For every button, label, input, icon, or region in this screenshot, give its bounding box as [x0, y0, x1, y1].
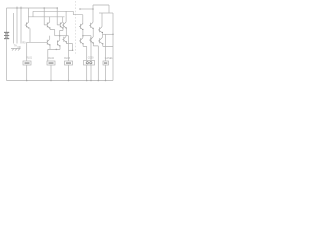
junction dots: [16, 7, 18, 9]
transistor Q3: [89, 22, 93, 29]
wire Q5b emitter route: [83, 44, 87, 61]
box B3 value: [66, 62, 71, 63]
wire bottom bus: [7, 80, 114, 82]
wire leg3 top link: [99, 12, 113, 14]
box B4 value rings: [86, 62, 88, 64]
wire Q1 collector up: [49, 17, 51, 22]
box B1 value: [25, 62, 30, 63]
battery BT1: [4, 32, 9, 38]
wire battery negative: [6, 39, 8, 81]
wire B3 jog: [69, 49, 73, 51]
transistor Q6: [89, 37, 93, 44]
box B2 value: [49, 62, 54, 63]
wire right top bus: [80, 8, 93, 10]
wire phase1: [55, 35, 69, 37]
wire right riser: [112, 13, 114, 81]
wire Q2 emitter into Q5: [65, 28, 67, 36]
wire Q3b collector feed: [101, 13, 103, 27]
wire Q1 emitter route: [50, 28, 55, 35]
svg-text:CASE1: CASE1: [105, 57, 114, 60]
svg-text:RL03: RL03: [64, 57, 70, 60]
resistor box B4: [84, 61, 95, 66]
wire tap V13.5: [13, 13, 15, 44]
wire Q2b feed: [73, 11, 83, 24]
wire Q2b emitter into Q5b: [82, 30, 84, 38]
wire collector bus y16.8: [28, 16, 65, 18]
transistor Q2: [62, 22, 66, 29]
wire Q3 collector feed: [92, 5, 94, 22]
wire B3 bottom: [68, 65, 70, 81]
resistor box B2: [47, 61, 55, 65]
transistor Q5b: [79, 38, 83, 45]
wire routing y11: [33, 11, 73, 16]
wire Q1b collector up: [62, 17, 64, 22]
transistor QA: [25, 22, 29, 29]
wire Q4 emitter: [49, 45, 51, 49]
wire phase2: [83, 35, 91, 37]
ground bar: [11, 49, 21, 51]
wire B3 drop: [68, 36, 70, 61]
wire lower join leg1: [48, 49, 60, 61]
dashed separator: [75, 1, 77, 54]
wire Q1b base drop: [57, 8, 60, 25]
wire Q4b collector: [59, 36, 61, 40]
wire Q3b emitter into Q6b: [102, 33, 104, 38]
transistor Q4b: [57, 40, 60, 46]
wire tap V17: [16, 7, 18, 44]
wire phase3: [103, 33, 114, 35]
wire B5 bottom: [105, 65, 107, 81]
transistor Q1b: [60, 22, 63, 29]
svg-text:TA: TA: [14, 44, 17, 47]
transistor Q4: [47, 39, 50, 45]
wire Q4 collector: [49, 36, 51, 39]
svg-text:RL02: RL02: [48, 57, 54, 60]
wire QA emitter drop: [29, 28, 31, 42]
wire B5 drop: [105, 34, 107, 61]
arrow blobs emitters: [28, 27, 29, 28]
wire QA collector drop: [28, 8, 30, 22]
resistor box B3: [65, 61, 73, 65]
wire top bus: [7, 7, 59, 9]
wire leg3 bridge: [93, 5, 109, 13]
transistor Q3b: [98, 27, 102, 33]
wire Q3 emitter into Q6: [92, 29, 94, 37]
wire Q4b emitter: [59, 46, 61, 49]
wire battery positive: [6, 8, 8, 32]
wire Q1 base drop: [44, 8, 47, 25]
transistor Q5: [62, 36, 66, 42]
wire B2 bottom: [50, 65, 52, 81]
resistor box B1: [23, 61, 31, 65]
transistor Q6b: [98, 38, 103, 45]
svg-text:RL01: RL01: [26, 57, 32, 60]
transistor Q2b: [79, 23, 83, 30]
wire B4 bottoms: [87, 65, 91, 81]
wire B1 bottom: [26, 65, 28, 81]
resistor box B5: [103, 61, 109, 65]
wire B4b drop: [90, 36, 92, 61]
wire Q1b emitter route: [60, 28, 63, 35]
wire Q2 collector feed: [65, 11, 67, 22]
box B5 value: [104, 62, 107, 63]
svg-text:C000: C000: [88, 56, 94, 59]
wire Q6b emitter route: [103, 44, 113, 46]
wire tap V21: [20, 7, 22, 44]
wire Q4 base line: [27, 42, 48, 61]
wire Q5 emitter route: [66, 42, 72, 50]
wire Q6 emitter route: [93, 43, 98, 80]
transistor Q1: [47, 22, 50, 29]
